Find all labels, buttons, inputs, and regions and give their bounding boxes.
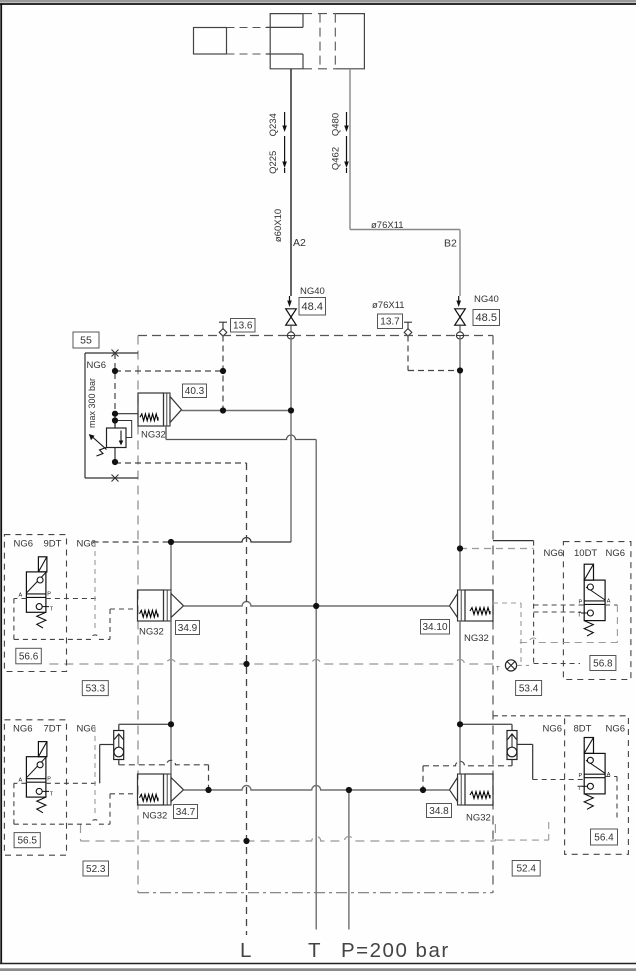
pilot wire 9DT A drop: [13, 599, 15, 640]
valve body 8DT: [584, 753, 605, 794]
cylinder rod break dash top: [227, 27, 270, 29]
label box 55: [73, 332, 99, 348]
pilot wire x533 drop: [533, 541, 535, 664]
check valve CV2 ball: [507, 747, 517, 757]
svg-text:56.6: 56.6: [19, 651, 39, 662]
valve seat lower 10DT: [587, 610, 593, 616]
wire CV2 bottom: [511, 760, 513, 766]
junction node 14: [457, 721, 463, 727]
svg-text:NG32: NG32: [464, 633, 489, 644]
wire CV2 to node: [460, 723, 512, 725]
cylinder tube break dash bottom: [303, 68, 335, 70]
junction node 9: [168, 539, 174, 545]
valve spring 8DT: [584, 794, 593, 809]
svg-text:NG6: NG6: [77, 539, 97, 550]
cylinder cap block: [335, 14, 364, 69]
wire 40.3 outlet to A2: [182, 410, 292, 412]
cartridge valve 34.9 poppet: [171, 594, 184, 618]
junction node 6: [112, 459, 118, 465]
pilot wire 7DT A rise: [109, 794, 111, 824]
label box 56.8: [590, 656, 616, 671]
label box 13.7: [378, 314, 403, 329]
cartridge valve 34.10 poppet: [450, 594, 458, 618]
svg-text:ø76X11: ø76X11: [372, 300, 405, 311]
label box 34.10: [421, 620, 450, 635]
svg-text:40.3: 40.3: [185, 386, 205, 397]
svg-text:NG6: NG6: [14, 539, 34, 550]
subplate 53.4 right: [616, 605, 618, 643]
wire A2 mid: [290, 336, 292, 543]
cartridge valve 34.10 spring: [470, 608, 490, 615]
block 55 right dashed edge: [492, 336, 494, 893]
svg-text:48.4: 48.4: [302, 301, 323, 313]
svg-text:7DT: 7DT: [44, 724, 62, 735]
pilot wire 34.10 spring drop: [520, 603, 522, 665]
svg-text:34.10: 34.10: [422, 622, 447, 633]
shut-off valve 48.4: [286, 309, 297, 317]
wire T line: [315, 440, 317, 930]
solenoid coil 8DT: [584, 738, 593, 754]
solenoid coil 9DT: [38, 557, 47, 572]
plug mark top: [112, 350, 119, 357]
cartridge valve 34.7 sleeve: [164, 774, 172, 805]
pilot wire plug stub: [517, 664, 529, 666]
solenoid coil 10DT: [584, 564, 593, 580]
connection marker A2 crossing: [287, 332, 294, 339]
junction node 18: [243, 838, 249, 844]
pilot wire 7DT A drop: [13, 783, 15, 824]
label box 53.3: [82, 681, 108, 696]
svg-text:B2: B2: [444, 238, 457, 250]
svg-text:56.8: 56.8: [593, 658, 613, 669]
pilot wire 34.10 spring tap: [493, 602, 521, 604]
pilot wire 8DT A out: [605, 776, 617, 778]
subplate 52.4 right: [548, 822, 550, 840]
border frame top line: [0, 3, 636, 5]
valve body 10DT: [584, 580, 605, 621]
svg-text:Q234: Q234: [268, 113, 279, 136]
svg-text:NG6: NG6: [77, 724, 97, 735]
cartridge valve 34.7 spring: [140, 794, 159, 801]
svg-text:NG32: NG32: [139, 627, 164, 638]
pilot wire 9DT P out: [46, 598, 98, 600]
subplate 53.4 bottom: [520, 638, 618, 642]
block 55 top dashed edge: [138, 335, 493, 337]
pilot wire 10DT P in: [534, 604, 585, 606]
junction node 4: [112, 411, 118, 417]
svg-text:NG6: NG6: [606, 724, 626, 735]
svg-text:8DT: 8DT: [574, 724, 592, 735]
enclosure 56.8: [563, 542, 631, 680]
valve seat upper 7DT: [26, 757, 46, 778]
svg-text:T: T: [496, 667, 500, 673]
pilot wire 13.7 drop: [407, 336, 409, 371]
svg-text:52.3: 52.3: [86, 864, 106, 875]
pilot wire 8DT P in: [533, 779, 585, 781]
wire B2 through cartridges: [459, 621, 461, 774]
wire B2 down to valve: [459, 230, 461, 297]
cartridge valve 40.3 spring: [140, 414, 158, 421]
border frame left line: [0, 4, 2, 964]
pilot wire x95 drop: [94, 542, 96, 630]
pilot wire 8DT A drop: [616, 777, 618, 821]
junction node 1: [112, 368, 118, 374]
check valve CV2 seat: [508, 734, 517, 740]
enclosure 56.5: [4, 720, 66, 855]
label box 56.5: [14, 833, 40, 848]
pilot wire 9DT A out: [14, 598, 27, 600]
cylinder rod: [194, 28, 227, 55]
wire cartridge 34.9 feed: [170, 542, 172, 590]
svg-text:NG6: NG6: [13, 724, 33, 735]
svg-text:max 300 bar: max 300 bar: [87, 378, 97, 428]
cartridge valve 34.8 body: [465, 774, 493, 805]
svg-text:55: 55: [80, 335, 92, 347]
enclosure 56.6: [4, 535, 66, 672]
relief group bottom rail: [85, 477, 138, 479]
group boundary y841 left stub: [80, 824, 82, 841]
relief valve RV1 inlet: [114, 421, 116, 429]
svg-text:34.9: 34.9: [178, 623, 198, 634]
relief valve RV1 flow arrow: [120, 431, 122, 442]
cartridge valve 34.8 poppet: [450, 778, 458, 802]
cartridge valve 40.3 poppet: [170, 397, 182, 423]
pilot wire 13.6 drop: [222, 336, 224, 411]
cartridge valve 40.3 sleeve: [164, 393, 171, 426]
svg-text:Q462: Q462: [331, 147, 342, 170]
pilot wire CV1 drain: [119, 760, 209, 765]
connection marker B2 crossing: [456, 332, 463, 339]
flow arrow Q225: [284, 136, 286, 163]
valve seat lower 9DT: [36, 604, 42, 610]
pilot wire x95 drop lower: [94, 727, 96, 815]
relief valve RV1 outlet: [114, 448, 116, 463]
svg-text:NG6: NG6: [544, 548, 564, 559]
svg-text:NG32: NG32: [466, 813, 491, 824]
label box 48.5: [473, 310, 500, 326]
test point 13.7: [404, 321, 412, 323]
relief valve RV1 pilot loop: [115, 421, 132, 438]
cartridge valve 34.7 poppet: [171, 778, 184, 802]
pilot wire x533 bottom: [534, 663, 580, 665]
flow arrow Q234: [284, 112, 286, 127]
wire 40.3 drain to T: [166, 435, 316, 439]
wire CV2 top: [511, 724, 513, 730]
junction node 5: [112, 417, 118, 423]
check valve CV2 body: [507, 731, 517, 760]
junction node 13: [168, 721, 174, 727]
group boundary y664: [49, 660, 493, 665]
cartridge valve 34.10 body: [465, 590, 493, 621]
wire B2 mid: [459, 336, 461, 591]
pilot wire 9DT A run: [14, 635, 110, 640]
label box 34.9: [176, 621, 200, 635]
valve spring 9DT: [37, 612, 46, 628]
svg-text:Q480: Q480: [331, 113, 342, 136]
svg-text:NG6: NG6: [87, 360, 107, 371]
valve body 7DT: [26, 757, 46, 797]
cartridge valve 34.9 body: [138, 590, 164, 621]
svg-text:ø60X10: ø60X10: [273, 209, 284, 242]
label box 34.8: [427, 804, 452, 818]
cylinder tube break dash top: [303, 13, 335, 15]
wire B2 below valve 48.5: [459, 326, 461, 336]
cartridge valve 34.7 body: [138, 774, 164, 805]
wire CV2 side port: [517, 743, 533, 745]
svg-text:52.4: 52.4: [516, 864, 536, 875]
wire P line: [348, 790, 350, 930]
cartridge valve 34.8 sleeve: [458, 774, 466, 805]
svg-text:NG6: NG6: [543, 724, 563, 735]
svg-text:NG32: NG32: [143, 811, 168, 822]
svg-text:34.8: 34.8: [429, 806, 449, 817]
wire cartridge 34.7 feed: [170, 621, 172, 774]
plugged port symbol: [505, 660, 516, 671]
wire tank rail y606: [184, 602, 450, 607]
wire pressure rail y790: [184, 786, 450, 791]
valve seat lower 8DT: [587, 783, 593, 789]
relief valve RV1 spring: [97, 448, 107, 457]
pilot wire 56.4 link: [493, 715, 565, 717]
junction node 10: [457, 545, 463, 551]
wire A2 to cartridge rail: [171, 538, 291, 543]
svg-text:9DT: 9DT: [44, 539, 62, 550]
svg-text:Q225: Q225: [268, 151, 279, 174]
enclosure 56.4: [565, 716, 629, 855]
wire CV1 bottom: [118, 760, 120, 765]
flow arrow Q480: [346, 112, 348, 127]
pilot wire 8DT T stub: [578, 785, 585, 787]
svg-text:P=200 bar: P=200 bar: [341, 939, 450, 962]
block 55 left dashed edge: [137, 336, 139, 893]
svg-text:34.7: 34.7: [176, 807, 196, 818]
pilot wire to 9DT P: [93, 541, 171, 543]
svg-text:NG40: NG40: [474, 294, 499, 305]
label box 56.4: [591, 829, 618, 845]
svg-text:A: A: [607, 599, 611, 605]
valve seat lower 7DT: [36, 788, 42, 794]
pilot wire CV2 drain: [423, 761, 512, 766]
svg-text:48.5: 48.5: [476, 312, 497, 324]
svg-text:NG6: NG6: [606, 548, 626, 559]
svg-text:56.5: 56.5: [17, 836, 37, 847]
valve spring 10DT: [584, 621, 593, 636]
group boundary y841: [81, 837, 496, 842]
wire B2 jog horizontal: [350, 229, 460, 231]
svg-text:NG40: NG40: [300, 286, 325, 297]
block 55 bottom dash-dot edge: [138, 892, 493, 894]
cartridge valve 34.10 sleeve: [458, 590, 466, 621]
svg-text:P: P: [47, 776, 51, 782]
svg-text:T: T: [308, 939, 321, 962]
border frame bottom line: [0, 963, 636, 965]
cylinder rod break dash bottom: [227, 53, 270, 55]
valve body 9DT: [26, 572, 46, 612]
label box 48.4: [299, 298, 326, 316]
cartridge valve 34.9 sleeve: [164, 590, 172, 621]
svg-text:10DT: 10DT: [574, 548, 597, 559]
svg-text:56.4: 56.4: [594, 832, 614, 843]
pilot wire 7DT A out: [14, 782, 27, 784]
relief group top rail: [85, 352, 138, 354]
svg-text:A: A: [19, 593, 23, 599]
relief valve RV1 body: [107, 428, 127, 448]
plug mark bottom: [112, 475, 119, 482]
pilot wire 7DT A run: [14, 820, 110, 825]
wire CV1 to node: [119, 723, 171, 725]
wire CV1 side drop: [99, 745, 101, 784]
junction node 2: [220, 368, 226, 374]
junction node 12: [243, 661, 249, 667]
valve seat upper 8DT: [586, 760, 605, 773]
pilot wire 10DT A out: [605, 604, 617, 606]
check valve CV1 seat: [114, 734, 123, 740]
wire 40.3 inlet: [115, 413, 138, 415]
svg-text:13.7: 13.7: [380, 317, 400, 328]
pilot wire 13.7 to B2: [408, 370, 460, 372]
valve mid lines 9DT: [26, 593, 46, 595]
valve mid lines 10DT: [584, 600, 605, 602]
border frame bottom strip: [0, 968, 636, 971]
flow arrow into valve 48.5: [458, 296, 460, 302]
valve mid lines 7DT: [26, 778, 46, 780]
label box 52.4: [512, 861, 540, 877]
test point 13.6: [219, 321, 227, 323]
svg-text:13.6: 13.6: [233, 321, 253, 332]
pilot wire y371: [115, 370, 223, 372]
junction node 15: [205, 787, 211, 793]
svg-text:P: P: [47, 592, 51, 598]
pilot wire B2 tap: [460, 548, 534, 550]
pilot wire 10DT T out: [534, 611, 581, 613]
junction node 3: [457, 367, 463, 373]
wire L line: [246, 463, 248, 935]
wire A2 from cylinder: [290, 69, 292, 296]
shut-off valve 48.5: [455, 309, 466, 317]
relief valve RV1 adjust arrow: [93, 437, 107, 450]
pilot wire 7DT P out: [46, 782, 100, 784]
label box 52.3: [83, 861, 109, 876]
pilot wire vertical x115: [114, 353, 116, 411]
svg-text:NG32: NG32: [141, 430, 166, 441]
svg-text:53.4: 53.4: [519, 683, 539, 694]
check valve CV1 ball: [114, 747, 124, 757]
wire block to 10DT solid: [493, 540, 534, 542]
valve seat upper 9DT: [26, 573, 46, 594]
wire 40.3 drain drop: [165, 426, 167, 440]
label box 56.6: [16, 648, 42, 664]
cartridge valve 34.9 spring: [140, 610, 159, 617]
flow arrow Q462: [346, 136, 348, 163]
wire CV2 side drop: [532, 744, 534, 779]
label box 53.4: [516, 681, 542, 696]
junction node 7: [220, 407, 226, 413]
svg-text:A2: A2: [293, 237, 306, 249]
cartridge valve 40.3 body: [138, 393, 164, 426]
svg-text:P: P: [579, 773, 583, 779]
valve seat upper 10DT: [586, 587, 605, 600]
subplate 52.4 bottom: [496, 839, 549, 841]
pilot wire CV1 drain drop: [208, 765, 210, 790]
svg-text:53.3: 53.3: [86, 684, 106, 695]
cylinder gland block: [270, 14, 303, 69]
junction node 16: [346, 787, 352, 793]
wire CV1 top: [118, 724, 120, 730]
valve mid lines 8DT: [584, 773, 605, 775]
svg-text:A: A: [19, 777, 23, 783]
pilot wire 9DT A rise: [109, 609, 111, 639]
wire CV1 side port: [100, 744, 114, 746]
wire A2 below valve 48.4: [290, 326, 292, 336]
group boundary y841 right stub: [494, 824, 496, 841]
check valve CV1 body: [114, 731, 124, 760]
wire B2 cap drop: [349, 69, 351, 230]
valve spring 7DT: [37, 797, 46, 813]
junction node 8: [288, 407, 294, 413]
pilot wire 9DT A to 34.9: [110, 608, 138, 610]
cartridge valve 34.8 spring: [470, 792, 490, 799]
junction node 11: [313, 603, 319, 609]
cylinder piston dash line: [319, 14, 321, 69]
solenoid coil 7DT: [38, 742, 47, 757]
label box 34.7: [174, 805, 198, 819]
flow arrow into valve 48.4: [289, 296, 291, 302]
pilot wire 7DT A to 34.7: [110, 793, 138, 795]
border frame top strip: [0, 0, 636, 3]
pilot wire CV2 drain drop: [422, 766, 424, 790]
pilot wire relief drain: [115, 462, 247, 464]
svg-text:L: L: [240, 939, 251, 962]
label box 13.6: [231, 319, 256, 333]
label box 40.3: [183, 384, 207, 398]
junction node 17: [420, 787, 426, 793]
relief group left rail: [84, 353, 86, 478]
svg-text:ø76X11: ø76X11: [371, 220, 404, 231]
